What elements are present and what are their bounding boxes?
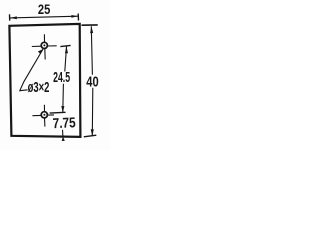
hole H2 vertical center line bottom — [44, 118, 46, 126]
svg-text:7.75: 7.75 — [52, 115, 76, 132]
dimension 24.5 extension tick bottom — [50, 111, 66, 114]
dimension 24.5 extension tick top — [60, 45, 70, 46]
dimension 24.5 arrow down — [61, 106, 64, 113]
hole H2 center dot — [43, 114, 45, 116]
dimension 7.75 line lower — [62, 130, 64, 137]
dimension 40 line upper — [91, 26, 92, 75]
hole H1 horizontal center line left — [32, 45, 41, 47]
dimension 24.5 arrow up — [65, 46, 68, 53]
background — [0, 0, 110, 150]
dimension 24.5 line upper — [65, 47, 67, 72]
hole H1 vertical center line top — [43, 34, 45, 42]
hole H2 circle — [41, 112, 47, 118]
dimension 24.5 line lower — [62, 84, 65, 113]
hole H1 circle — [41, 42, 47, 48]
svg-text:ø3×2: ø3×2 — [28, 80, 50, 96]
hole H1 center dot — [43, 44, 45, 46]
dimension 25 line — [10, 16, 78, 18]
svg-text:24.5: 24.5 — [53, 70, 70, 86]
svg-text:40: 40 — [86, 75, 98, 91]
dimension 40 arrow down — [91, 129, 94, 136]
dimension 25 extension line right — [77, 14, 79, 21]
hole H2 horizontal center line right — [48, 114, 54, 116]
hole H2 vertical center line top — [43, 105, 45, 112]
dimension 40 arrow up — [90, 26, 93, 33]
dimension 40 line lower — [91, 88, 94, 136]
dimension 25 extension line left — [9, 14, 11, 20]
svg-text:25: 25 — [38, 2, 51, 17]
dimension 40 extension line top — [82, 24, 98, 26]
hole H2 horizontal center line left — [32, 114, 41, 116]
dimension 25 arrow right — [71, 15, 78, 18]
plate outline — [9, 24, 80, 137]
hole H1 horizontal center line right — [48, 45, 57, 47]
hole H1 vertical center line bottom — [44, 49, 46, 60]
dimension 7.75 arrow below edge — [62, 136, 65, 141]
dimension 40 extension line bottom — [84, 135, 97, 137]
leader line to hole H1 — [20, 49, 43, 91]
leader arrowhead — [38, 49, 43, 54]
dimension 25 arrow left — [10, 16, 17, 19]
